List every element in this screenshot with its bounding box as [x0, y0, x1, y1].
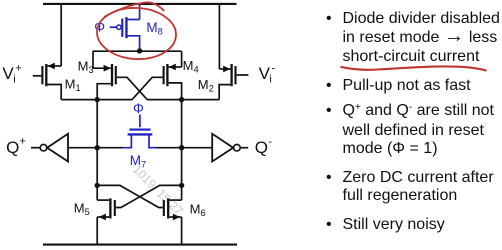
svg-text:M4: M4: [183, 58, 199, 75]
svg-text:Q: Q: [255, 138, 268, 157]
drain bus wires: [61, 99, 132, 101]
svg-text:M1: M1: [65, 77, 81, 94]
svg-text:i: i: [269, 74, 271, 86]
svg-text:-: -: [272, 63, 276, 75]
red wavy underline (short-circuit current): [341, 66, 487, 70]
transistor M1: [33, 64, 61, 100]
inverter Q+: [31, 147, 40, 149]
wire row through M7: [97, 147, 123, 149]
svg-text:M5: M5: [74, 200, 90, 217]
wire right branch from VDD to M2 source: [218, 4, 220, 69]
transistor M6: [164, 198, 182, 218]
inverter Q-: [182, 147, 213, 149]
wire left branch from VDD to M1 source: [60, 4, 62, 66]
bullet 3: [326, 102, 502, 158]
svg-text:i: i: [13, 74, 15, 86]
svg-text:M3: M3: [78, 59, 94, 76]
transistor M4: [132, 64, 182, 100]
red ellipse annotation around M8: [96, 2, 178, 61]
svg-text:1019: 15:27: 1019: 15:27: [130, 162, 186, 218]
svg-text:Φ: Φ: [133, 101, 144, 116]
left column wire: [96, 100, 98, 245]
svg-text:M7: M7: [130, 153, 146, 170]
svg-text:M8: M8: [146, 20, 162, 37]
VDD top rail: [43, 3, 237, 5]
node A (left drain): [95, 97, 100, 102]
svg-text:+: +: [15, 63, 21, 75]
bullet 1: [326, 10, 502, 66]
svg-text:M2: M2: [198, 77, 214, 94]
cross-couple X of M5/M6: [97, 185, 181, 207]
bullet 5: [326, 216, 502, 235]
node under M8: wire to M3/M4 sources: [93, 50, 182, 52]
node B (right drain): [179, 97, 184, 102]
right column wire: [181, 100, 183, 245]
svg-text:-: -: [268, 136, 272, 148]
svg-text:M6: M6: [190, 201, 206, 218]
svg-text:+: +: [20, 135, 26, 147]
transistor M7 (blue reset switch): [123, 115, 156, 148]
transistor M8 (blue clock pmos): [110, 5, 140, 50]
ground bottom rail: [43, 244, 237, 246]
transistor M2: [219, 64, 248, 100]
svg-text:Q: Q: [6, 138, 19, 157]
transistor M5: [97, 198, 115, 218]
bullet 2: [326, 77, 502, 96]
bullet 4: [326, 169, 502, 207]
transistor M3: [93, 64, 147, 100]
